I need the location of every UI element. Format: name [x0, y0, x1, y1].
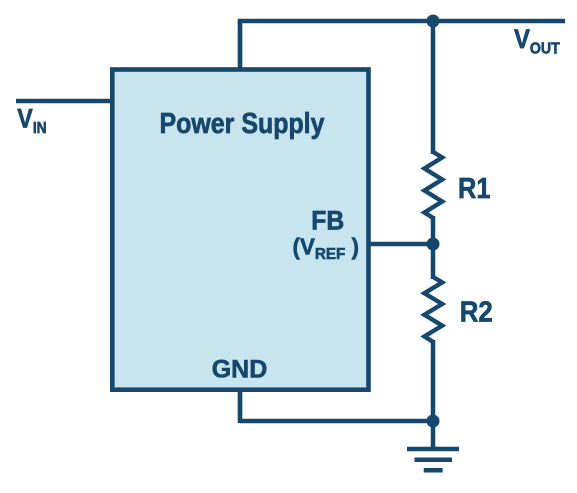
wire top horizontal to VOUT [238, 19, 565, 24]
wire R2 to ground node [431, 340, 436, 421]
wire bottom horizontal GND to ground node [240, 419, 433, 424]
ground [407, 449, 459, 470]
svg-text:R1: R1 [458, 173, 491, 205]
resistor R2 [424, 277, 442, 342]
wire FB pin [370, 242, 433, 247]
wire box GND pin vertical [238, 390, 243, 423]
wire R1 to FB node [431, 216, 436, 244]
power supply box U1 [112, 70, 368, 390]
wire VOUT node to R1 [431, 21, 436, 154]
node junction FB [427, 238, 440, 251]
node junction ground [427, 415, 440, 428]
wire ground node to ground symbol [431, 421, 436, 449]
wire box top pin vertical [238, 21, 243, 69]
svg-text:R2: R2 [460, 297, 493, 329]
node junction VOUT [427, 15, 440, 28]
resistor R1 [424, 152, 442, 218]
svg-text:Power Supply: Power Supply [160, 108, 325, 140]
wire VIN input [16, 99, 112, 104]
svg-text:FB: FB [311, 205, 344, 235]
wire FB node to R2 [431, 244, 436, 279]
svg-text:GND: GND [212, 356, 268, 384]
